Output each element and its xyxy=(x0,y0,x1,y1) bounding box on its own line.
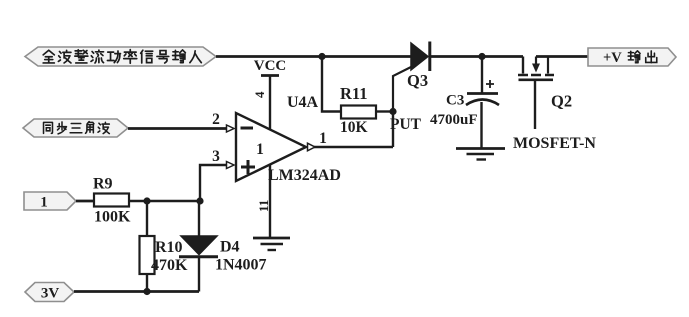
svg-text:+V: +V xyxy=(603,50,622,66)
glyph 同 xyxy=(44,122,53,133)
plus sign xyxy=(241,160,255,174)
pin arrow output xyxy=(308,143,316,151)
Q2 top jog bulk+drain xyxy=(536,57,548,74)
wire port 1 to R9 xyxy=(76,200,94,203)
svg-text:C3: C3 xyxy=(446,93,464,109)
Q2 gate bar xyxy=(519,79,554,82)
svg-text:R9: R9 xyxy=(93,176,113,193)
wire R11 tap down and to R11 left xyxy=(322,57,341,112)
op-amp U4A LM324AD xyxy=(236,113,341,184)
glyph 整 xyxy=(75,50,88,63)
port +V 输出 xyxy=(588,48,676,66)
svg-text:1: 1 xyxy=(256,141,264,158)
svg-text:1N4007: 1N4007 xyxy=(215,257,267,274)
pin arrow into inverting input xyxy=(227,125,235,132)
glyph 功 xyxy=(107,51,120,63)
glyph 角 xyxy=(86,122,94,134)
wire MOSFET drain to output port xyxy=(536,55,588,58)
glyph 输 xyxy=(628,51,640,63)
transistor Q2 MOSFET xyxy=(513,57,596,153)
svg-text:Q2: Q2 xyxy=(551,92,572,111)
glyph 信 xyxy=(141,50,153,63)
glyph 率 xyxy=(124,50,137,64)
wire Q3 cathode to MOSFET xyxy=(431,55,523,58)
wire node up to pin3 xyxy=(200,165,226,201)
svg-text:100K: 100K xyxy=(94,209,131,226)
svg-text:3: 3 xyxy=(212,148,220,165)
wire op-amp output to junction column xyxy=(314,112,393,147)
svg-text:R11: R11 xyxy=(340,84,368,103)
svg-text:1: 1 xyxy=(319,130,327,147)
port 同步三角波 xyxy=(23,119,128,137)
junction dot D4 node xyxy=(196,197,203,204)
junction dot R10 top xyxy=(143,197,150,204)
svg-text:VCC: VCC xyxy=(254,58,287,74)
wire top net from input port to Q3 anode xyxy=(216,55,411,58)
ground below C3 xyxy=(456,149,505,160)
wire 3V rail xyxy=(74,290,199,293)
junction dot PUT gate node xyxy=(389,108,396,115)
glyph 入 xyxy=(190,51,201,63)
svg-text:470K: 470K xyxy=(151,257,188,274)
glyph 全 xyxy=(43,50,54,63)
power VCC symbol xyxy=(254,58,287,130)
ground below op-amp xyxy=(253,238,290,250)
pin arrow into non-inverting input xyxy=(227,162,235,169)
svg-text:2: 2 xyxy=(212,111,220,128)
thyristor Q3 xyxy=(407,42,430,91)
svg-text:D4: D4 xyxy=(220,239,240,256)
wire PUT gate diagonal xyxy=(393,67,411,112)
svg-text:U4A: U4A xyxy=(287,94,319,111)
Q2 gate lead xyxy=(534,80,536,129)
glyph 号 xyxy=(157,51,169,63)
wire R11 right to junction xyxy=(376,110,392,112)
Q2 bulk arrow xyxy=(532,64,540,73)
port 全波整流功率信号输入 xyxy=(25,47,216,66)
svg-text:4700uF: 4700uF xyxy=(430,112,478,128)
glyph 步 xyxy=(58,122,67,134)
svg-text:LM324AD: LM324AD xyxy=(268,167,341,184)
svg-text:4: 4 xyxy=(252,91,267,98)
junction dot C3 tap xyxy=(478,53,485,60)
wire R9 to summing node xyxy=(129,200,200,202)
svg-text:1: 1 xyxy=(40,195,48,211)
wire pin2 input xyxy=(128,127,226,130)
capacitor C3 xyxy=(430,57,499,149)
svg-text:Q3: Q3 xyxy=(407,71,428,90)
svg-text:11: 11 xyxy=(256,200,271,212)
glyph 波 xyxy=(58,50,71,63)
resistor R11 xyxy=(340,84,376,136)
resistor R10 xyxy=(140,201,189,292)
port 3V xyxy=(25,283,74,302)
svg-text:PUT: PUT xyxy=(390,116,422,133)
Q2 channel bars xyxy=(518,74,554,77)
glyph 三 xyxy=(70,124,82,133)
svg-text:R10: R10 xyxy=(155,239,183,256)
svg-text:3V: 3V xyxy=(41,286,60,302)
glyph 输 xyxy=(173,50,186,63)
svg-text:MOSFET-N: MOSFET-N xyxy=(513,135,596,152)
port 1 xyxy=(24,192,76,211)
junction dot at R11 tap xyxy=(318,53,325,60)
minus sign xyxy=(241,127,254,130)
diode D4 xyxy=(179,201,267,292)
wire into Q2 source lead xyxy=(522,57,524,74)
svg-text:10K: 10K xyxy=(340,119,368,136)
resistor R9 xyxy=(93,176,131,226)
glyph 波 xyxy=(98,122,109,133)
junction dot R10 bottom xyxy=(143,288,150,295)
glyph 出 xyxy=(646,51,657,63)
wire pin 11 to ground xyxy=(269,165,271,237)
glyph 流 xyxy=(91,50,104,63)
